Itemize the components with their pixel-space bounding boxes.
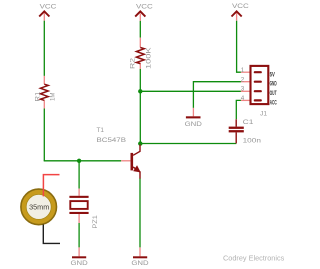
svg-text:PZ1: PZ1 bbox=[92, 215, 99, 229]
pin J1-3 bbox=[241, 90, 251, 92]
pin PZ1 bottom bbox=[78, 214, 80, 223]
svg-text:35mm: 35mm bbox=[29, 202, 49, 211]
svg-text:OUT: OUT bbox=[270, 90, 277, 97]
transistor T1 emitter arrow bbox=[134, 166, 140, 172]
svg-text:VCC: VCC bbox=[136, 4, 153, 11]
wire collector net horizontal to C1 bbox=[140, 143, 236, 145]
wire bbox=[139, 21, 141, 38]
svg-text:100n: 100n bbox=[243, 138, 262, 145]
capacitor C1 top pin bbox=[235, 119, 237, 126]
supply symbol VCC2 arrow bbox=[135, 11, 145, 16]
wire pin4 to C1 top bbox=[236, 100, 241, 119]
pin GND2 bbox=[139, 247, 141, 256]
ground GND1 bar bbox=[72, 256, 86, 258]
wire node A down to PZ1 bbox=[78, 161, 80, 189]
piezo disc 35mm outer ring bbox=[21, 189, 57, 225]
svg-text:GND: GND bbox=[270, 81, 277, 88]
svg-text:J1: J1 bbox=[260, 111, 267, 118]
piezo PZ1 body rectangle bbox=[70, 201, 87, 209]
transistor T1 collector lead bbox=[133, 145, 140, 156]
net VCC1 column: wire bbox=[43, 13, 45, 21]
svg-text:1M: 1M bbox=[50, 93, 57, 102]
svg-text:C1: C1 bbox=[243, 119, 254, 126]
ground GND3 bar bbox=[186, 116, 201, 118]
svg-text:BC547B: BC547B bbox=[97, 137, 127, 144]
net ACC(J1 pin4): pin J1-4 bbox=[241, 99, 251, 101]
svg-text:100K: 100K bbox=[146, 46, 153, 69]
piezo disc inner face bbox=[26, 194, 51, 219]
transistor T1 emitter lead bbox=[133, 167, 140, 179]
piezo PZ1 top plate bbox=[69, 196, 88, 198]
svg-text:4: 4 bbox=[241, 95, 245, 102]
connector J1 pin2 contact bbox=[255, 81, 261, 83]
connector J1 body bbox=[251, 66, 269, 104]
net VCC2 column: wire bbox=[139, 14, 141, 21]
svg-text:Codrey Electronics: Codrey Electronics bbox=[223, 256, 285, 263]
svg-text:ACC: ACC bbox=[270, 100, 277, 107]
node OUT junction dot bbox=[138, 89, 142, 93]
wire pin2 to GND3 bbox=[193, 82, 241, 108]
wire OUT net horizontal to J1 pin3 bbox=[140, 90, 241, 92]
svg-text:GND: GND bbox=[185, 121, 203, 128]
piezo disc black lead bbox=[43, 225, 60, 244]
svg-text:VCC: VCC bbox=[40, 3, 57, 10]
svg-text:3: 3 bbox=[241, 86, 245, 93]
wire R1 to base net bbox=[43, 109, 45, 161]
pin GND1 bbox=[78, 247, 80, 256]
wire bbox=[237, 21, 241, 72]
svg-text:2: 2 bbox=[241, 76, 245, 83]
svg-text:1: 1 bbox=[241, 67, 245, 74]
capacitor C1 plates bbox=[229, 127, 244, 129]
supply symbol VCC1 arrow bbox=[39, 11, 49, 16]
wire PZ1 to GND1 bbox=[78, 223, 80, 247]
piezo disc red lead bbox=[43, 175, 59, 197]
connector J1 pin3 contact bbox=[255, 90, 261, 92]
supply symbol VCC3 arrow bbox=[232, 11, 242, 16]
svg-text:GND: GND bbox=[71, 260, 89, 267]
wire bbox=[43, 21, 45, 76]
resistor R2 zigzag bbox=[136, 48, 144, 64]
piezo PZ1 bottom plate bbox=[69, 212, 88, 214]
svg-text:R1: R1 bbox=[34, 91, 41, 102]
pin of R1 top bbox=[43, 76, 45, 84]
ground GND2 bar bbox=[133, 256, 147, 258]
pin PZ1 top bbox=[78, 189, 80, 196]
pin of R1 bottom bbox=[43, 100, 45, 108]
net GND(J1 pin2): pin J1-2 bbox=[241, 81, 251, 83]
resistor R1 zigzag bbox=[40, 84, 48, 100]
svg-text:GND: GND bbox=[131, 260, 149, 267]
svg-text:R2: R2 bbox=[130, 57, 137, 69]
svg-text:5V: 5V bbox=[270, 71, 276, 78]
svg-text:T1: T1 bbox=[97, 127, 105, 134]
node collector junction dot bbox=[138, 141, 142, 145]
net VCC3 column: wire bbox=[236, 13, 238, 21]
pin J1-1 bbox=[241, 71, 251, 73]
node A junction dot bbox=[77, 159, 81, 163]
capacitor C1 bottom pin bbox=[235, 132, 237, 143]
connector J1 pin1 contact bbox=[255, 71, 261, 73]
svg-text:VCC: VCC bbox=[232, 3, 249, 10]
wire R2 bottom to collector node bbox=[139, 69, 141, 144]
pin base of T1 bbox=[121, 160, 130, 162]
pin R2 bottom bbox=[139, 63, 141, 69]
wire base net horizontal bbox=[44, 160, 122, 162]
pin GND3 bbox=[192, 108, 194, 116]
pin R2 top bbox=[139, 38, 141, 48]
transistor T1 base bar bbox=[131, 153, 134, 171]
connector J1 pin4 contact bbox=[255, 99, 261, 101]
net emitter: wire T1 emitter to GND2 bbox=[139, 178, 141, 247]
